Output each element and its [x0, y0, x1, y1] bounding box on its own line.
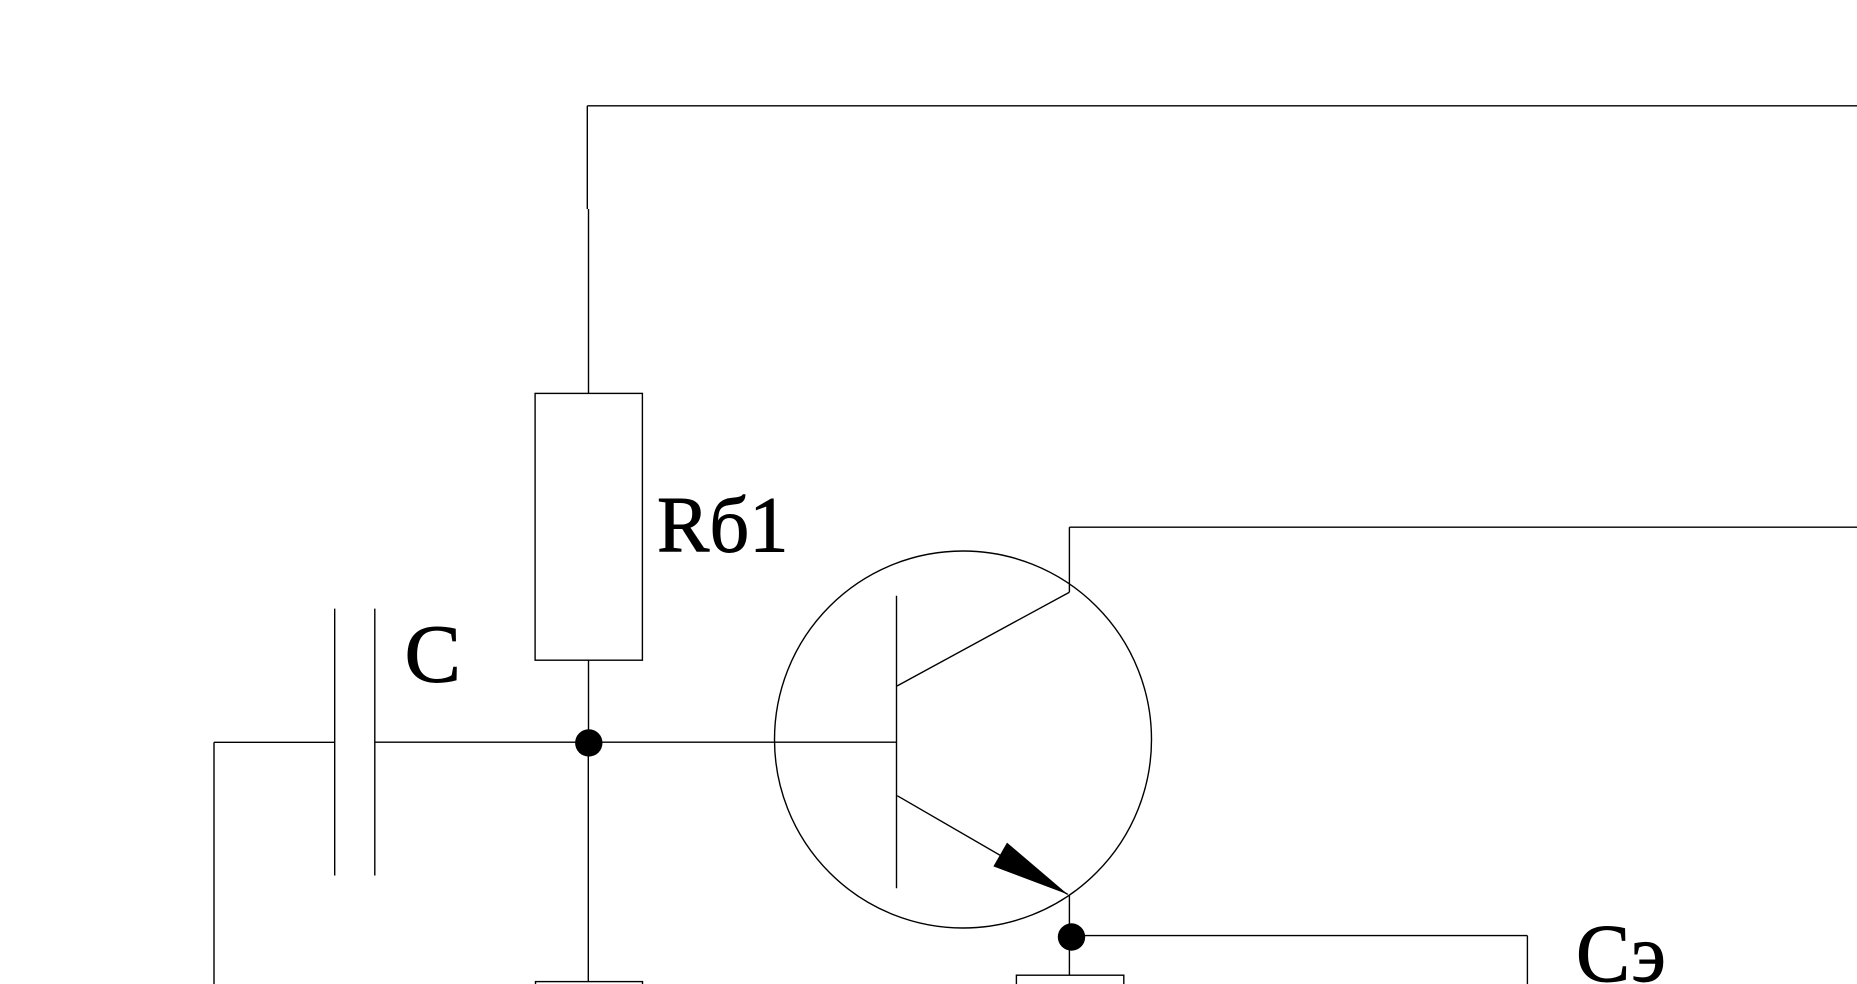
wire vertical into Rб1 (lower segment): [588, 209, 590, 393]
resistor Rб1: [535, 393, 642, 660]
transistor base bar: [896, 596, 898, 889]
svg-text:Rб1: Rб1: [657, 482, 789, 569]
emitter vertical wire to Rэ: [1068, 894, 1070, 975]
node junction dot at base: [575, 729, 602, 756]
emitter diagonal lead: [897, 796, 1068, 895]
wire input vertical down: [213, 742, 215, 984]
wire base node down to Rб2: [587, 742, 589, 981]
node junction dot at emitter: [1058, 923, 1085, 950]
wire capacitor to base: [375, 741, 897, 743]
wire emitter node to Сэ: [1071, 935, 1527, 937]
collector vertical wire: [1068, 527, 1070, 592]
capacitor C left plate: [334, 609, 336, 876]
svg-text:Сэ: Сэ: [1576, 907, 1666, 984]
wire down to Сэ capacitor: [1526, 936, 1528, 984]
capacitor C right plate: [374, 609, 376, 876]
svg-text:C: C: [405, 608, 462, 700]
wire top supply rail: [587, 105, 1857, 107]
emitter arrowhead: [993, 843, 1067, 895]
resistor Rб2 (clipped at bottom): [536, 982, 643, 984]
wire input horizontal to capacitor: [214, 741, 335, 743]
resistor Rэ (clipped at bottom): [1016, 975, 1123, 984]
wire vertical from rail (upper segment): [586, 106, 588, 209]
transistor VT1 body circle: [775, 551, 1152, 928]
collector output rail: [1069, 526, 1857, 528]
collector diagonal lead: [897, 592, 1069, 686]
wire Rб1 bottom to base node: [588, 660, 590, 742]
